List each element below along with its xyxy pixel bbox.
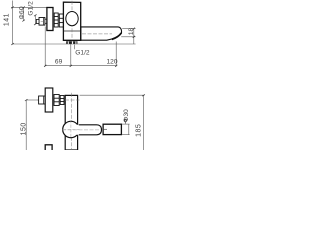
spout mouth dark band (112, 33, 122, 40)
spout (side) (81, 27, 122, 40)
body centerline (plan) (70, 93, 72, 150)
dimension G1/2 upper ticks (34, 14, 37, 25)
svg-text:G1/2: G1/2 (75, 50, 90, 57)
bottom reference line y44 (13, 43, 136, 45)
inlet nut (plan) (39, 96, 45, 104)
svg-text:Φ60: Φ60 (18, 6, 25, 20)
faucet body (plan) (65, 95, 77, 150)
svg-text:18: 18 (128, 28, 135, 36)
second inlet flange (partial, cut at bottom) (45, 145, 52, 151)
bottom outlet stub (66, 41, 77, 44)
dimension 185 tick (142, 94, 145, 96)
dimension G1/2 upper line (34, 15, 36, 24)
inlet nut face line (plan) (43, 96, 45, 104)
connector ring (side) (59, 14, 63, 27)
inlet threads (plan) (54, 95, 59, 106)
dimension 18 ticks (133, 28, 135, 38)
threaded nipple (side) (54, 13, 58, 27)
inlet centerline (26, 99, 39, 101)
svg-text:150: 150 (20, 122, 27, 135)
cartridge circle (66, 12, 78, 26)
dimension 150 line (25, 100, 27, 150)
dimension 185 extension line (80, 95, 145, 150)
handle nut face line (43, 18, 45, 25)
svg-text:185: 185 (135, 124, 142, 137)
dimension 150 tick (25, 99, 28, 101)
handle stem (36, 19, 39, 23)
svg-text:Φ30: Φ30 (123, 109, 130, 122)
dimension phi30 diamond arrow (124, 119, 127, 122)
dimension 69/120 extension lines (45, 27, 116, 67)
handle neck (plan) (75, 125, 102, 135)
handle nut (39, 18, 45, 26)
handle blade (plan) (103, 124, 121, 134)
dimension 69/120 ticks (44, 65, 117, 67)
faucet body (side) (63, 2, 80, 40)
dimension 18 extension lines (121, 29, 135, 44)
dimension 141 line (11, 1, 47, 45)
knob center crosshair (70, 120, 72, 139)
inlet flange (plan) (45, 88, 53, 112)
body part line (63, 30, 80, 32)
svg-text:120: 120 (106, 59, 117, 66)
body centerline vertical (71, 1, 73, 41)
blade detail mark (104, 128, 107, 130)
flange (phi60 escutcheon, side) (47, 8, 53, 31)
dimension 141 ticks (11, 7, 14, 45)
dimension phi60 ticks (22, 7, 25, 22)
handle knob circle (plan) (63, 121, 79, 137)
svg-text:141: 141 (4, 13, 11, 26)
inlet centerline through body (65, 99, 80, 101)
svg-text:G1/2: G1/2 (28, 1, 35, 16)
dimension phi30 extension lines (122, 122, 130, 135)
handle centerline (37, 20, 48, 22)
handle lever centerline (62, 129, 101, 131)
outlet stub short ext (74, 45, 76, 50)
inlet connector (plan) (60, 96, 64, 105)
spout centerline (82, 33, 112, 35)
dimension phi60 line (23, 7, 25, 20)
svg-text:69: 69 (55, 59, 63, 66)
